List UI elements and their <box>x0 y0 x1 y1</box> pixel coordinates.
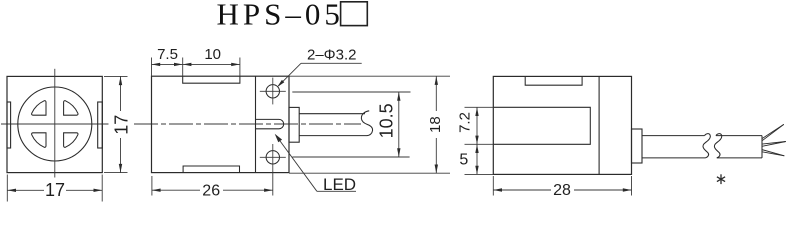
dim 17 right line <box>120 76 122 111</box>
LED slot <box>256 119 284 128</box>
right view divider <box>598 76 600 174</box>
right view top tab <box>525 76 582 85</box>
dim 17 right extension lines <box>104 75 128 77</box>
right view cable gland <box>632 129 643 163</box>
cable end cap <box>761 136 763 158</box>
title option box <box>341 2 368 26</box>
svg-text:2–Φ3.2: 2–Φ3.2 <box>307 46 357 63</box>
svg-text:7.2: 7.2 <box>457 112 474 133</box>
slot top-right <box>64 101 78 116</box>
mounting hole bottom <box>266 151 279 164</box>
dim 26 line <box>152 189 200 191</box>
svg-text:10: 10 <box>204 46 221 63</box>
mounting hole top <box>266 85 279 98</box>
cable break left S <box>703 134 710 158</box>
wire 2 <box>762 142 786 145</box>
asterisk note <box>717 174 725 184</box>
label 2-phi3.2 leader <box>279 63 302 86</box>
slot bottom-left <box>32 133 46 148</box>
dim 18 extension lines <box>289 75 450 77</box>
label 2-phi3.2 underline <box>301 62 362 64</box>
right view cable first section <box>642 135 705 137</box>
slot top-left <box>32 101 46 116</box>
left view right tab <box>98 102 103 148</box>
svg-text:7.5: 7.5 <box>157 46 178 63</box>
svg-text:26: 26 <box>202 182 220 199</box>
hole top crosshair <box>260 90 286 92</box>
dim 17 bottom line <box>7 189 44 191</box>
svg-text:28: 28 <box>553 182 571 199</box>
left view left tab <box>7 102 11 148</box>
dim 26 extension lines <box>151 176 153 196</box>
wire 3 <box>762 150 784 156</box>
dim 7.5/10 extension lines <box>151 58 153 77</box>
middle view bottom tab <box>183 166 239 173</box>
horizontal centerline <box>1 123 109 125</box>
dim 7.2/5 line <box>476 107 478 174</box>
middle view outline <box>152 76 290 172</box>
svg-text:HPS–05: HPS–05 <box>217 0 344 32</box>
svg-text:17: 17 <box>45 180 65 200</box>
hole bottom crosshair <box>260 156 286 158</box>
label LED underline <box>317 190 356 192</box>
dim 10.5 line <box>398 92 400 157</box>
cable bushing middle view <box>289 107 299 142</box>
dim 10.5 extension lines <box>292 91 410 93</box>
wire 1 <box>762 124 784 138</box>
cable break right S <box>714 134 721 158</box>
dim 7.2/5 extension lines <box>465 106 494 108</box>
middle view top tab <box>183 76 240 83</box>
svg-text:18: 18 <box>427 116 444 133</box>
label LED leader <box>276 136 317 191</box>
svg-text:17: 17 <box>111 115 131 135</box>
right view body <box>493 76 631 174</box>
dim 28 extension lines <box>492 176 494 196</box>
dim 28 line <box>493 189 551 191</box>
left view vertical centerline <box>54 69 56 178</box>
cable break curve middle view <box>361 111 372 136</box>
left view sensing face circle <box>18 87 92 161</box>
svg-text:5: 5 <box>459 151 468 168</box>
middle view body-flange divider <box>255 76 257 172</box>
right view cable second section <box>716 135 762 137</box>
right view label recess <box>493 107 590 144</box>
dim 17 bottom extension lines <box>6 175 8 202</box>
slot bottom-right <box>64 133 78 148</box>
dim 7.5/10 line <box>152 63 240 65</box>
left view square body <box>7 76 102 172</box>
dim 18 line <box>435 76 437 111</box>
cable middle view <box>299 113 365 115</box>
svg-text:10.5: 10.5 <box>376 103 396 138</box>
